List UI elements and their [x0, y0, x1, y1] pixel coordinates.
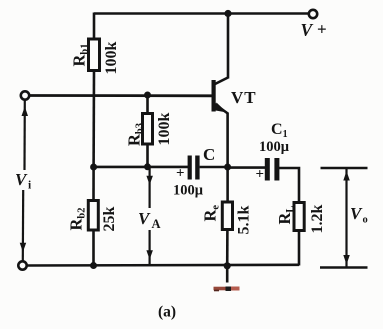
terminal input top: [21, 91, 29, 99]
resistor Rb3: [143, 114, 153, 145]
node Rb3 bottom junction: [144, 163, 151, 170]
svg-text:+: +: [317, 20, 327, 39]
svg-text:V: V: [138, 209, 151, 228]
wire Rb2 bottom lead: [92, 230, 95, 266]
wire collector vertical: [227, 14, 230, 79]
svg-text:100k: 100k: [156, 113, 173, 146]
svg-text:A: A: [152, 217, 161, 231]
wire base rail: [30, 94, 214, 97]
wire left vertical from top rail to R_b1: [93, 13, 96, 40]
svg-text:V: V: [15, 170, 28, 189]
wire Vi arrow line: [20, 100, 28, 261]
node bottom emitter junction: [224, 262, 231, 269]
wire Vo bracket: [320, 168, 368, 268]
wire C1 to RL corner: [279, 168, 299, 203]
wire node A rail: [94, 166, 188, 169]
capacitor C1: [256, 121, 290, 183]
svg-text:V: V: [301, 20, 314, 40]
svg-text:+: +: [256, 167, 265, 183]
transistor Q VT: [212, 78, 257, 114]
wire Re top lead: [226, 167, 229, 202]
wire C to emitter node: [200, 166, 228, 169]
node base junction: [144, 92, 151, 99]
terminal input bottom: [18, 261, 26, 269]
resistor RL: [294, 203, 304, 231]
wire top rail: [94, 12, 309, 15]
svg-text:V: V: [350, 204, 363, 223]
wire Rb3 bottom lead: [146, 144, 149, 167]
svg-text:o: o: [363, 215, 368, 226]
svg-text:100k: 100k: [103, 42, 120, 75]
wire RL bottom lead: [298, 231, 301, 266]
wire emitter node to C1: [228, 166, 266, 169]
wire emitter vertical: [226, 113, 229, 168]
svg-text:100μ: 100μ: [173, 183, 204, 199]
svg-text:100μ: 100μ: [259, 139, 290, 155]
ground: [214, 266, 240, 291]
resistor Rb1: [89, 39, 100, 71]
node A junction left: [90, 164, 97, 171]
svg-text:+: +: [176, 166, 185, 182]
svg-text:(a): (a): [158, 304, 176, 321]
wire VA arrow line: [146, 168, 153, 264]
node emitter junction: [224, 164, 231, 171]
wire Rb2 top lead: [92, 167, 95, 201]
wire Rb1 bottom down to node A: [92, 71, 95, 168]
capacitor C: [173, 145, 215, 199]
node bottom left junction: [90, 262, 97, 269]
node top junction: [224, 10, 231, 17]
svg-text:25k: 25k: [101, 207, 118, 232]
svg-text:1.2k: 1.2k: [309, 205, 326, 234]
svg-text:VT: VT: [231, 88, 257, 107]
svg-text:C: C: [203, 145, 215, 164]
wire Re bottom lead: [226, 230, 229, 267]
resistor Rb2: [88, 201, 98, 231]
wire bottom rail: [27, 263, 299, 266]
terminal V+: [309, 10, 317, 18]
wire Rb3 top lead: [146, 95, 149, 114]
resistor Re: [222, 202, 232, 230]
svg-text:5.1k: 5.1k: [236, 206, 253, 235]
